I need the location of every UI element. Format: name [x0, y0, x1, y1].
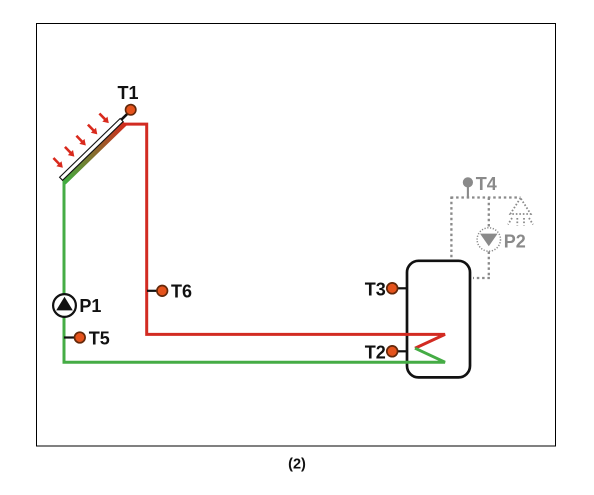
sensor T2 stem: [398, 350, 408, 352]
sensor T5: [75, 332, 86, 343]
svg-text:T2: T2: [365, 342, 386, 362]
svg-text:T1: T1: [118, 83, 139, 103]
svg-text:T4: T4: [476, 174, 497, 194]
storage tank: [407, 261, 470, 378]
sensor T6 stem: [147, 290, 158, 292]
sensor T4 stem: [467, 185, 469, 198]
wire: green return pipe (tank coil to collector): [64, 180, 445, 362]
sensor T2: [387, 346, 398, 357]
border frame: [37, 24, 556, 447]
shower head icon (dashed): [508, 198, 533, 226]
sun ray arrow 5: [97, 111, 112, 126]
sun ray arrow 2: [62, 144, 77, 159]
wire: dashed DHW circuit top horizontal: [451, 196, 521, 198]
svg-text:T5: T5: [89, 328, 110, 348]
sensor T6: [157, 286, 168, 297]
pump P1: [53, 294, 76, 317]
svg-text:T3: T3: [365, 280, 386, 300]
sun ray arrow 4: [85, 122, 100, 137]
sun ray arrow 1: [51, 156, 66, 171]
wire: dashed vertical above pump P2: [488, 198, 490, 229]
sun ray arrow 3: [74, 133, 89, 148]
svg-text:(2): (2): [288, 456, 306, 472]
svg-text:T6: T6: [171, 281, 192, 301]
svg-text:P1: P1: [79, 296, 101, 316]
wire: red supply pipe (collector to tank coil): [122, 124, 445, 348]
wire: dashed horizontal into tank right side: [473, 277, 490, 279]
sensor T1 stem: [121, 114, 127, 120]
sensor T3: [387, 283, 398, 294]
svg-text:P2: P2: [504, 231, 526, 251]
sensor T4: [463, 177, 473, 187]
sensor T1: [126, 105, 136, 115]
solar collector panel: [59, 118, 127, 184]
sensor T3 stem: [398, 287, 408, 289]
wire: dashed DHW circuit left vertical to tank top: [450, 197, 452, 261]
sensor T5 stem: [64, 336, 75, 338]
wire: dashed vertical below pump P2: [488, 252, 490, 279]
pump P2: [477, 228, 500, 251]
